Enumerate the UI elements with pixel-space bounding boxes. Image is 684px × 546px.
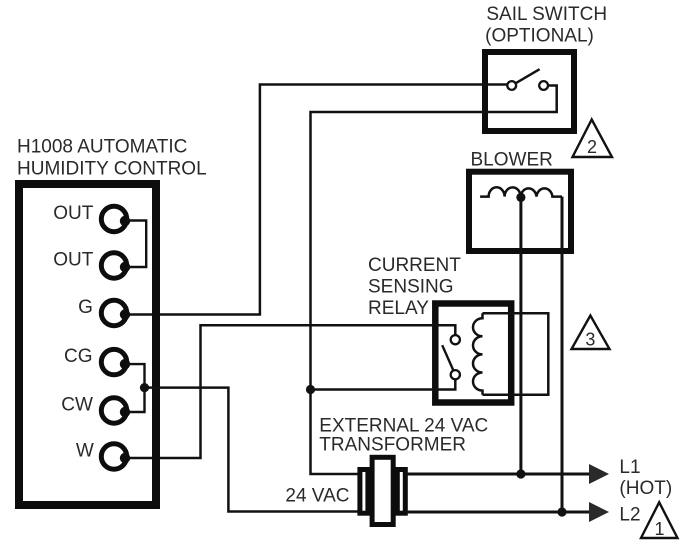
label EXTERNAL 24 VAC TRANSFORMER [319,416,488,456]
svg-text:SAIL SWITCH: SAIL SWITCH [486,4,607,25]
wire G net: G terminal to sail switch left contact [127,85,507,315]
svg-text:CW: CW [61,395,93,416]
svg-text:(HOT): (HOT) [619,478,672,499]
svg-text:OUT: OUT [53,203,94,224]
svg-text:CURRENT: CURRENT [368,255,461,276]
triangle callout 3 [572,316,610,350]
svg-text:OUT: OUT [53,250,94,271]
wire: blower right lead down to L2 [561,197,564,512]
current sensing relay box K1 [435,304,511,403]
junction dot L1 x blower tap [516,469,525,478]
wire jumper CG to CW [127,364,145,412]
svg-text:1: 1 [654,519,664,539]
terminal W [76,441,130,470]
relay coil winding [473,313,483,395]
svg-text:3: 3 [585,330,595,350]
label CURRENT SENSING RELAY [368,255,461,319]
label BLOWER [471,150,553,171]
relay switch top contact circle [451,335,460,344]
junction dot L2 x blower right lead [557,507,566,516]
terminal CG [64,346,130,375]
transformer T1 left winding bracket [360,470,368,514]
triangle callout 2 [573,120,613,158]
relay switch bottom contact circle [451,370,460,379]
wire: relay switch bottom contact to junction on sail-return riser [311,379,456,389]
svg-text:SENSING: SENSING [368,277,454,298]
sail switch lever arm [516,69,540,83]
wire: relay coil loop to blower sense line [483,313,549,395]
transformer T1 right winding bracket [397,470,405,514]
label SAIL SWITCH (OPTIONAL) [485,4,607,46]
svg-text:(OPTIONAL): (OPTIONAL) [485,26,594,47]
wire jumper OUT1 to OUT2 [127,221,146,268]
arrowhead L1 [589,464,609,484]
svg-text:H1008 AUTOMATIC: H1008 AUTOMATIC [17,136,187,157]
label L1 (HOT) [619,457,672,499]
svg-text:24 VAC: 24 VAC [285,485,349,506]
wire L2 line from transformer to arrow [406,511,591,514]
wire: sail switch right contact down-left to transformer top-left [311,86,557,475]
relay switch lever arm [442,345,453,370]
svg-text:G: G [78,297,93,318]
svg-text:TRANSFORMER: TRANSFORMER [319,435,466,456]
junction dot on riser at relay return [306,385,315,394]
terminal OUT 2 [53,250,130,279]
arrowhead L2 [589,502,609,522]
label 24 VAC [285,485,349,506]
transformer T1 core body [372,457,393,524]
wire: blower center tap down to L1 [519,197,522,474]
wire: CG/CW junction to transformer 24VAC bottom lead [145,388,361,512]
blower motor winding coil [480,187,562,196]
blower box M1 [469,172,571,251]
svg-text:2: 2 [587,137,597,157]
humidity control box [19,184,156,505]
triangle callout 1 [641,502,678,539]
label L2 [619,505,640,526]
svg-text:W: W [76,441,94,462]
svg-text:L1: L1 [619,457,640,478]
terminal OUT 1 [53,203,130,232]
svg-text:HUMIDITY CONTROL: HUMIDITY CONTROL [17,158,207,179]
sail switch right contact circle [539,81,548,90]
junction dot: blower winding center tap [516,193,525,202]
svg-text:CG: CG [64,346,93,367]
svg-text:EXTERNAL 24 VAC: EXTERNAL 24 VAC [319,416,488,437]
label H1008 AUTOMATIC HUMIDITY CONTROL [17,136,207,179]
wire L1 line from transformer to arrow [406,473,591,476]
terminal G [78,297,130,326]
svg-text:RELAY: RELAY [368,298,429,319]
sail switch left contact circle [507,81,516,90]
sail switch box S1 [485,52,574,131]
terminal CW [61,395,130,424]
wire W net: W terminal up to relay switch top contact [127,325,455,458]
svg-text:BLOWER: BLOWER [471,150,553,171]
svg-text:L2: L2 [619,505,640,526]
junction dot on CG/CW jumper [140,383,149,392]
